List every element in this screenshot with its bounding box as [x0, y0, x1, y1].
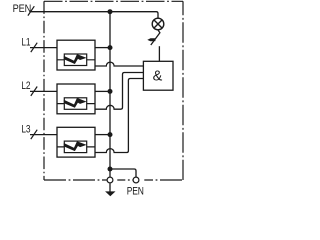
node junction L1/bus — [108, 45, 113, 50]
slash on PEN wire — [28, 6, 34, 15]
node junction L2/bus — [108, 89, 113, 94]
wire to right PEN terminal — [110, 169, 136, 177]
slash on L1 wire — [31, 43, 37, 52]
ground arrow — [109, 183, 111, 192]
wire L3 in — [30, 134, 57, 136]
lamp H1 (indicator) — [152, 18, 164, 30]
terminal left (earth) — [107, 177, 113, 183]
wire PEN bus vertical — [109, 12, 111, 177]
node junction PEN/bus — [108, 9, 113, 14]
wire L1 in — [30, 47, 57, 49]
switch S1 blade — [151, 30, 160, 45]
wire L2 in — [30, 90, 57, 92]
arrester F2 (spark-gap SPD, L2) — [57, 84, 95, 114]
enclosure dashed boundary — [44, 1, 183, 180]
wire monitor L1 to AND gate (hop over bus) — [95, 62, 143, 66]
terminal right (PEN) — [133, 177, 139, 183]
node junction L3/bus — [108, 132, 113, 137]
arrester F3 (spark-gap SPD, L3) — [57, 127, 95, 157]
slash on L2 wire — [31, 87, 37, 96]
node junction bus/PEN terminals — [108, 167, 113, 172]
svg-text:L2: L2 — [21, 80, 30, 92]
wire L2 out to bus — [95, 90, 110, 92]
svg-text:L3: L3 — [21, 123, 30, 135]
arrester F1 (spark-gap SPD, L1) — [57, 40, 95, 70]
wire switch to AND gate — [158, 46, 160, 61]
switch S1 actuator flag — [147, 38, 155, 41]
svg-text:PEN: PEN — [127, 186, 144, 198]
slash on L3 wire — [31, 130, 37, 139]
wire monitor L3 to AND gate (hop over bus) — [95, 79, 143, 153]
svg-text:PEN: PEN — [13, 3, 32, 15]
AND gate U1 — [143, 61, 173, 90]
wire L3 out to bus — [95, 134, 110, 136]
svg-text:L1: L1 — [21, 36, 30, 48]
svg-text:&: & — [153, 68, 163, 84]
wire monitor L2 to AND gate (hop over bus) — [95, 73, 143, 110]
wire PEN top horizontal — [30, 12, 158, 19]
wire L1 out to bus — [95, 47, 110, 49]
